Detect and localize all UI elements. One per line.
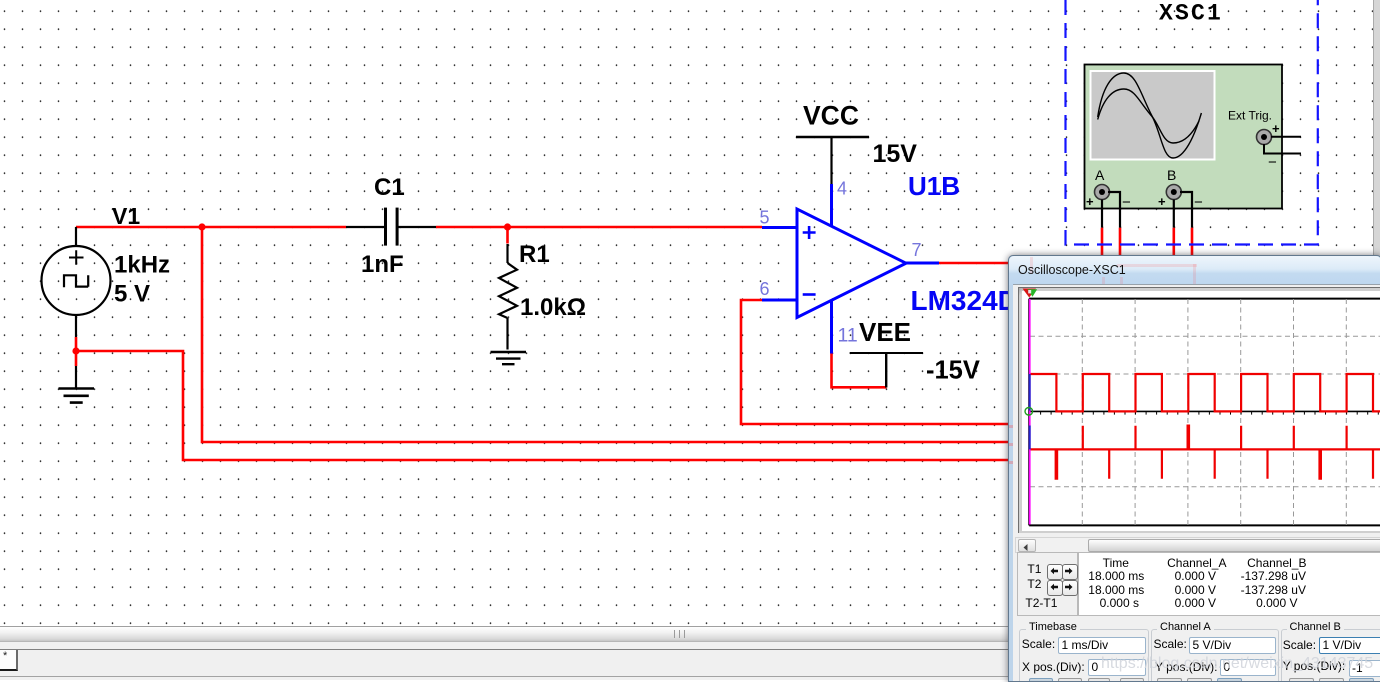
XSC1 icon screen xyxy=(1090,70,1216,161)
svg-text:+: + xyxy=(1086,194,1094,209)
svg-text:−: − xyxy=(1268,154,1277,171)
wire: V1 minus node to bottom bus xyxy=(76,337,1010,460)
svg-text:1nF: 1nF xyxy=(361,251,404,278)
oscilloscope XSC1 icon body xyxy=(1085,65,1283,209)
app horizontal scrollbar xyxy=(0,626,1380,642)
Ext Trig plus lead xyxy=(1271,121,1301,137)
resistor R1 xyxy=(499,244,517,350)
XSC1 screen sine traces xyxy=(1098,73,1202,158)
svg-text:5 V: 5 V xyxy=(114,281,150,308)
VCC power symbol xyxy=(796,136,869,138)
Channel A group xyxy=(1151,629,1279,682)
svg-text:+: + xyxy=(1158,194,1166,209)
svg-text:4: 4 xyxy=(837,179,847,199)
svg-text:U1B: U1B xyxy=(908,171,960,201)
svg-text:-15V: -15V xyxy=(926,357,980,385)
svg-text:1kHz: 1kHz xyxy=(114,252,170,279)
svg-text:V1: V1 xyxy=(112,203,140,229)
readout table xyxy=(1078,552,1380,616)
node C junction xyxy=(72,347,79,354)
right scrollbar strip xyxy=(1373,0,1380,626)
ground for R1 xyxy=(491,352,527,364)
plot border xyxy=(1029,299,1380,526)
wire: C1 right to op-amp pin5 net xyxy=(436,226,762,229)
axis ticks xyxy=(1030,411,1378,414)
wire: R1 top stub xyxy=(506,227,509,244)
scope display frame xyxy=(1018,287,1380,533)
terminal B xyxy=(1158,167,1203,211)
pin 5 stub xyxy=(762,226,797,229)
channel B baseline xyxy=(1030,448,1380,450)
cursor T2 blue overlay xyxy=(1029,374,1031,449)
VEE power symbol xyxy=(850,353,923,388)
channel B down spikes xyxy=(1109,449,1373,478)
node B junction xyxy=(504,223,511,230)
channel marker green ring xyxy=(1025,408,1033,416)
time axis xyxy=(1030,410,1380,412)
T1/T2 cursor box xyxy=(1017,552,1078,616)
wire: V1 plus to C1 net xyxy=(76,226,346,229)
dashed grid horizontals xyxy=(1030,336,1380,486)
svg-text:6: 6 xyxy=(760,279,770,299)
pin 7 stub xyxy=(906,262,939,265)
svg-text:−: − xyxy=(1122,194,1131,211)
Channel B group xyxy=(1281,629,1380,682)
Ext Trig terminal xyxy=(1257,130,1272,145)
wire: probe A plus xyxy=(1101,200,1103,228)
watermark xyxy=(1101,655,1373,673)
svg-text:VCC: VCC xyxy=(803,101,859,131)
window content backdrop xyxy=(1013,284,1380,682)
wire: op-amp output pin7 xyxy=(938,262,1010,265)
svg-text:+: + xyxy=(1272,121,1280,136)
wire: VCC rail to pin4 xyxy=(830,136,832,184)
svg-text:C1: C1 xyxy=(374,174,405,201)
wire: probe A minus xyxy=(1108,192,1120,228)
svg-text:−: − xyxy=(1194,194,1203,211)
oscilloscope window Oscilloscope-XSC1 xyxy=(1008,255,1380,682)
svg-text:LM324D: LM324D xyxy=(911,285,1018,316)
scope plot xyxy=(1009,256,1380,681)
wire: probe B plus xyxy=(1173,200,1175,228)
cursor handle marker xyxy=(1023,289,1037,298)
svg-text:5: 5 xyxy=(760,208,770,228)
window title bar xyxy=(1009,256,1380,285)
Timebase group xyxy=(1019,629,1149,682)
pin 6 stub xyxy=(762,299,797,302)
terminal A xyxy=(1086,167,1131,211)
cursor T1 magenta xyxy=(1029,299,1031,525)
wire: probe B minus xyxy=(1180,192,1192,228)
channel B up spikes xyxy=(1083,426,1347,450)
bottom button stubs xyxy=(1029,678,1053,682)
wire: feedback bus from node A down and right xyxy=(202,227,1010,442)
svg-text:B: B xyxy=(1167,167,1176,183)
pin 4 stub xyxy=(830,184,833,226)
op-amp U1B xyxy=(797,209,906,318)
svg-text:XSC1: XSC1 xyxy=(1159,1,1223,27)
pin 11 stub xyxy=(830,300,833,354)
Ext Trig minus lead xyxy=(1264,144,1301,171)
ground for V1 xyxy=(59,389,95,403)
svg-text:1.0kΩ: 1.0kΩ xyxy=(520,294,586,321)
bottom spreadsheet pane tab xyxy=(0,650,1380,680)
wire: op-amp pin6 to left bus xyxy=(741,300,1010,424)
capacitor C1 xyxy=(346,208,436,246)
selection dashed box around XSC1 xyxy=(1066,0,1318,245)
svg-text:VEE: VEE xyxy=(859,317,911,347)
node A junction xyxy=(198,223,205,230)
source V1 square-wave source xyxy=(42,227,111,388)
svg-text:Ext Trig.: Ext Trig. xyxy=(1228,109,1272,123)
svg-text:15V: 15V xyxy=(873,140,918,168)
dashed grid verticals xyxy=(1082,299,1346,525)
svg-text:R1: R1 xyxy=(519,241,550,268)
channel A square wave xyxy=(1030,374,1380,411)
svg-text:11: 11 xyxy=(838,325,858,347)
wire: pin11 to VEE xyxy=(832,353,887,388)
svg-text:7: 7 xyxy=(912,240,922,260)
scope scrollbar xyxy=(1015,537,1380,553)
svg-text:A: A xyxy=(1095,167,1105,183)
